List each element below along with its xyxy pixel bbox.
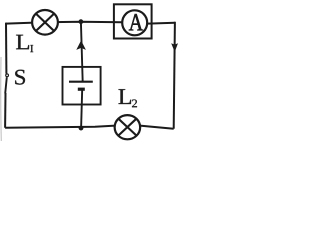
switch S blade <box>5 77 7 93</box>
lamp L2 <box>115 115 140 139</box>
wire: top run (left corner to top-right corner) <box>6 22 175 24</box>
wire: left vertical upper segment (corner to switch knob) <box>5 23 7 74</box>
ammeter box <box>114 4 152 38</box>
current arrow down on right wire <box>171 43 178 52</box>
label S <box>15 70 25 85</box>
label L1 <box>16 35 33 52</box>
wire: bottom run (bottom-left corner to bottom-right corner) <box>5 126 174 129</box>
battery box <box>63 67 101 105</box>
current arrow up on middle branch <box>76 40 86 50</box>
switch S pivot knob <box>6 74 9 77</box>
label L2 <box>119 89 138 107</box>
wire: right vertical run <box>174 22 175 129</box>
ammeter A <box>122 10 147 35</box>
wire: middle branch upper (top junction through battery to long plate) <box>81 22 83 82</box>
battery cell: short plate (-) <box>78 88 85 91</box>
scan edge artifact <box>0 57 2 141</box>
node: top junction <box>79 19 84 24</box>
lamp L1 <box>32 10 58 35</box>
wire: middle branch lower (short plate to bottom junction) <box>81 89 82 128</box>
wire: left vertical lower segment (switch to bottom corner) <box>4 93 6 128</box>
battery cell: long plate (+) <box>69 81 93 83</box>
node: bottom junction <box>79 126 84 131</box>
